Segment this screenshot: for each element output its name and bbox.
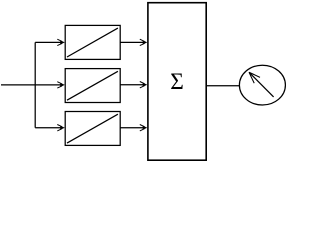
svg-text:Σ: Σ	[170, 69, 184, 95]
